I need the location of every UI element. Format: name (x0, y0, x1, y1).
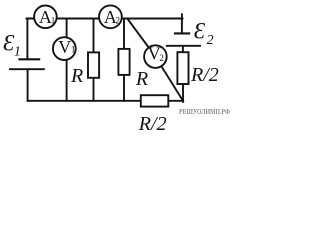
voltmeter V1 (53, 37, 76, 60)
battery E2 long plate (166, 45, 201, 47)
wire top horizontal (27, 18, 183, 20)
wire left vertical to battery E1 (26, 19, 28, 59)
wire R1 vertical branch (93, 19, 95, 101)
wire diagonal V2 to bottom junction (155, 57, 183, 102)
svg-text:V: V (58, 37, 71, 57)
ammeter A2 (99, 5, 122, 28)
wire E2 to R/2 stub (182, 46, 184, 52)
svg-text:R/2: R/2 (190, 64, 219, 86)
battery E1 short plate (18, 58, 40, 60)
svg-text:1: 1 (51, 15, 56, 25)
svg-text:R/2: R/2 (138, 113, 167, 135)
svg-text:Ɛ: Ɛ (194, 19, 206, 44)
resistor R1 box (88, 52, 99, 77)
svg-text:2: 2 (207, 33, 214, 48)
resistor R/2 right box (177, 52, 188, 84)
voltmeter V2 (144, 45, 167, 68)
wire E2 top lead with overshoot (181, 14, 183, 33)
svg-text:2: 2 (116, 15, 121, 25)
battery E1 long plate (9, 68, 45, 70)
svg-text:2: 2 (159, 53, 164, 63)
battery E2 short plate (174, 32, 190, 34)
wire bottom horizontal right of R/2 (168, 100, 183, 102)
wire E1 bottom lead (27, 69, 29, 101)
wire bottom horizontal left of R/2 (28, 100, 141, 102)
wire R2 vertical branch (123, 19, 125, 101)
svg-text:R: R (135, 68, 148, 90)
wire R/2 right lower lead (182, 84, 184, 102)
resistor R/2 bottom box (141, 95, 169, 106)
svg-text:РЕШУОЛИМП.РФ: РЕШУОЛИМП.РФ (179, 107, 230, 116)
resistor R2 box (118, 49, 129, 75)
svg-text:1: 1 (71, 44, 76, 54)
wire diagonal top to V2 (128, 19, 156, 57)
svg-text:R: R (70, 65, 83, 87)
svg-text:1: 1 (14, 45, 21, 60)
ammeter A1 (34, 5, 57, 28)
wire V1 vertical branch (66, 19, 68, 101)
